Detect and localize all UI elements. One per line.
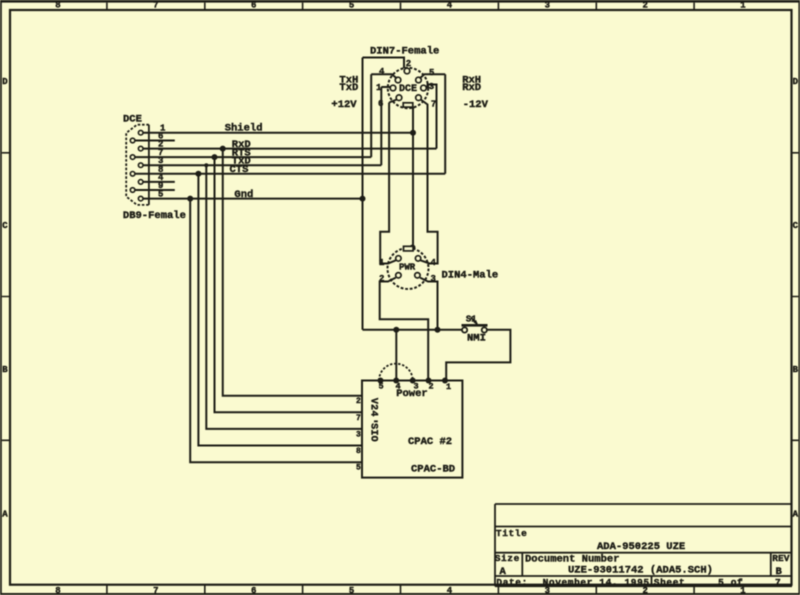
svg-text:7: 7 xyxy=(431,99,436,109)
svg-text:3: 3 xyxy=(545,0,550,10)
svg-text:2: 2 xyxy=(429,382,434,392)
svg-text:DCE: DCE xyxy=(123,113,142,125)
svg-text:+12V: +12V xyxy=(331,99,357,111)
svg-text:DIN4-Male: DIN4-Male xyxy=(442,269,499,281)
svg-text:REV: REV xyxy=(772,553,789,564)
svg-text:D: D xyxy=(793,77,799,87)
svg-text:B: B xyxy=(793,365,799,375)
svg-text:2: 2 xyxy=(642,0,647,10)
svg-text:7: 7 xyxy=(356,414,361,423)
svg-text:S: S xyxy=(367,423,378,429)
svg-text:DCE: DCE xyxy=(399,84,417,95)
svg-text:4: 4 xyxy=(447,0,453,10)
svg-text:4: 4 xyxy=(447,586,453,595)
svg-text:5: 5 xyxy=(356,464,361,473)
svg-text:PWR: PWR xyxy=(399,263,416,273)
svg-text:A: A xyxy=(2,510,8,520)
svg-text:5: 5 xyxy=(349,586,354,595)
svg-text:NMI: NMI xyxy=(467,333,486,345)
svg-text:O: O xyxy=(367,436,378,442)
svg-text:UZE-93011742 (ADA5.SCH): UZE-93011742 (ADA5.SCH) xyxy=(568,564,713,576)
svg-text:Date:: Date: xyxy=(496,577,528,588)
svg-text:4: 4 xyxy=(431,258,437,268)
svg-text:4: 4 xyxy=(367,410,378,416)
svg-text:D: D xyxy=(2,77,8,87)
svg-text:8: 8 xyxy=(356,447,361,456)
svg-text:3: 3 xyxy=(356,430,361,439)
svg-text:6: 6 xyxy=(251,0,256,10)
svg-text:C: C xyxy=(2,221,8,231)
svg-text:DB9-Female: DB9-Female xyxy=(123,210,186,222)
svg-text:Title: Title xyxy=(496,528,528,539)
svg-text:S1: S1 xyxy=(466,314,477,324)
svg-text:5: 5 xyxy=(349,0,354,10)
svg-text:RxD: RxD xyxy=(462,82,481,94)
svg-text:8: 8 xyxy=(55,0,60,10)
svg-text:Size: Size xyxy=(495,553,520,564)
svg-text:I: I xyxy=(367,429,378,435)
svg-text:A: A xyxy=(500,566,507,578)
svg-text:2: 2 xyxy=(406,59,411,69)
svg-text:5: 5 xyxy=(379,382,384,392)
svg-text:ADA-950225 UZE: ADA-950225 UZE xyxy=(597,541,685,553)
svg-text:C: C xyxy=(793,221,799,231)
svg-text:V: V xyxy=(367,398,378,404)
svg-text:CPAC-BD: CPAC-BD xyxy=(411,464,455,476)
svg-text:1: 1 xyxy=(376,83,382,93)
svg-text:November 14, 1995: November 14, 1995 xyxy=(543,577,650,588)
svg-text:-12V: -12V xyxy=(463,99,489,111)
svg-text:1: 1 xyxy=(379,258,385,268)
svg-text:1: 1 xyxy=(446,382,451,392)
svg-text:7: 7 xyxy=(153,0,158,10)
svg-text:2: 2 xyxy=(367,404,378,410)
svg-text:7: 7 xyxy=(775,577,781,588)
svg-text:7: 7 xyxy=(153,586,158,595)
svg-text:6: 6 xyxy=(378,99,383,109)
svg-text:Sheet: Sheet xyxy=(654,577,686,588)
svg-text:Power: Power xyxy=(396,388,428,400)
svg-text:3: 3 xyxy=(429,82,434,92)
svg-text:B: B xyxy=(2,365,8,375)
svg-text:5 of: 5 of xyxy=(718,577,743,588)
svg-text:4: 4 xyxy=(379,67,385,77)
svg-text:TxD: TxD xyxy=(339,82,358,94)
svg-text:5: 5 xyxy=(429,68,434,78)
svg-text:2: 2 xyxy=(356,397,361,406)
svg-text:DIN7-Female: DIN7-Female xyxy=(370,45,439,57)
svg-text:8: 8 xyxy=(55,586,60,595)
svg-text:2: 2 xyxy=(379,274,384,284)
svg-text:CPAC #2: CPAC #2 xyxy=(408,436,452,448)
svg-text:1: 1 xyxy=(740,0,746,10)
svg-text:A: A xyxy=(793,510,799,520)
svg-text:6: 6 xyxy=(251,586,256,595)
svg-text:3: 3 xyxy=(431,274,436,284)
